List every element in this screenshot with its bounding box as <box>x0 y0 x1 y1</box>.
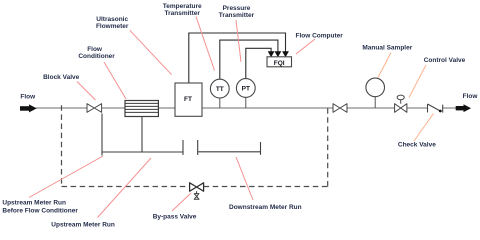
by-pass valve <box>190 183 204 191</box>
svg-text:Transmitter: Transmitter <box>164 10 200 17</box>
arrowhead TT line into FQI <box>275 51 282 57</box>
temperature transmitter TT circle <box>210 79 229 98</box>
svg-text:FT: FT <box>184 96 192 103</box>
control valve actuator <box>397 95 404 100</box>
leader By-pass Valve <box>172 193 191 211</box>
leader Upstream Meter Run <box>98 158 152 218</box>
check valve flapper <box>428 104 441 111</box>
svg-text:Conditioner: Conditioner <box>78 53 115 60</box>
flow conditioner stem to bracket <box>141 117 143 153</box>
leader Downstream Meter Run <box>236 157 253 200</box>
svg-text:Flow: Flow <box>463 93 479 100</box>
arrowhead FT line into FQI <box>282 51 289 57</box>
svg-text:FQI: FQI <box>274 60 285 67</box>
control valve <box>395 104 407 113</box>
svg-text:Transmitter: Transmitter <box>219 12 255 19</box>
leader Check Valve <box>414 114 434 142</box>
check valve left post <box>427 104 429 112</box>
svg-text:Flow: Flow <box>87 46 103 53</box>
svg-text:Block Valve: Block Valve <box>43 74 80 81</box>
TT stem to pipe <box>219 98 221 108</box>
svg-text:Control Valve: Control Valve <box>424 57 466 64</box>
leader Control Valve <box>409 65 426 98</box>
svg-text:Upstream Meter Run: Upstream Meter Run <box>2 200 66 207</box>
upstream meter run bracket right tick <box>182 140 184 155</box>
leader Upstream Meter Run Before Flow Conditioner <box>29 156 103 198</box>
ultrasonic flowmeter FT box <box>175 83 202 116</box>
dashed boundary left vertical <box>61 105 63 186</box>
svg-text:Flowmeter: Flowmeter <box>96 23 129 30</box>
flow arrow left <box>20 104 37 112</box>
svg-text:Ultrasonic: Ultrasonic <box>96 16 128 23</box>
svg-text:Before Flow Conditioner: Before Flow Conditioner <box>2 207 78 214</box>
svg-text:Downstream Meter Run: Downstream Meter Run <box>229 204 302 211</box>
by-pass valve drain hourglass <box>194 194 199 200</box>
leader Manual Sampler <box>378 53 391 78</box>
leader Block Valve <box>77 82 96 101</box>
upstream meter run bracket left tall tick <box>101 114 103 156</box>
svg-text:Pressure: Pressure <box>223 5 251 12</box>
svg-text:Flow Computer: Flow Computer <box>296 32 344 39</box>
upstream meter run bracket horizontal <box>102 151 183 153</box>
wire main pipe right segment <box>443 107 457 109</box>
by-pass valve drain stem <box>196 191 198 193</box>
manual sampler stem <box>374 97 376 108</box>
ultrasonic flowmeter FT riser to flow computer <box>189 33 286 83</box>
leader Pressure Transmitter <box>236 20 241 62</box>
PT stem to pipe <box>245 97 247 108</box>
dashed boundary bottom left horizontal <box>62 186 190 188</box>
svg-text:Flow: Flow <box>20 94 36 101</box>
arrowhead PT line into FQI <box>268 51 275 57</box>
svg-text:Manual Sampler: Manual Sampler <box>362 45 412 52</box>
check valve pivot dot <box>439 110 442 113</box>
flow computer FQI box <box>267 57 292 67</box>
manual sampler circle <box>366 78 385 97</box>
leader Flow Computer <box>296 39 315 54</box>
leader Temperature Transmitter <box>196 17 215 71</box>
svg-text:Upstream Meter Run: Upstream Meter Run <box>51 222 115 229</box>
leader Flow Conditioner <box>104 62 126 99</box>
flow conditioner <box>125 101 158 117</box>
dashed boundary bottom right horizontal <box>204 186 328 188</box>
svg-text:TT: TT <box>216 86 224 93</box>
downstream meter run bracket horizontal <box>198 151 261 153</box>
control valve stem <box>400 100 402 104</box>
pressure transmitter PT circle <box>236 79 255 98</box>
wire main pipe left segment <box>36 107 428 109</box>
svg-text:Check Valve: Check Valve <box>398 142 436 149</box>
downstream meter run bracket left tick <box>197 140 199 155</box>
block valve V1 <box>87 104 102 113</box>
isolation valve V2 <box>333 104 347 113</box>
flow arrow right <box>456 104 471 112</box>
svg-text:PT: PT <box>242 85 250 92</box>
dashed boundary right vertical <box>327 109 329 187</box>
TT riser to flow computer <box>220 40 278 79</box>
PT riser to flow computer <box>246 48 271 78</box>
downstream meter run bracket right tick <box>260 142 262 155</box>
check valve right post <box>442 105 444 113</box>
leader Ultrasonic Flowmeter <box>130 30 172 74</box>
svg-text:Temperature: Temperature <box>163 3 202 10</box>
svg-text:By-pass Valve: By-pass Valve <box>153 213 197 220</box>
